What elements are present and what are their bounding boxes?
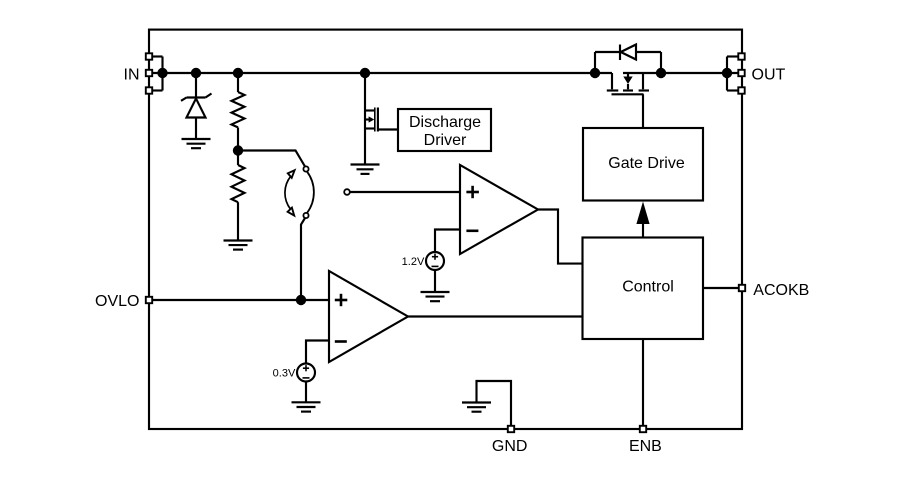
arrow: Control to Gate Drive <box>636 202 649 238</box>
IC outline <box>149 30 742 429</box>
svg-text:Gate Drive: Gate Drive <box>608 155 685 172</box>
pin GND <box>492 426 528 455</box>
wire: U2 - input to V2 <box>306 341 329 364</box>
resistor R1 (upper divider) <box>232 68 245 151</box>
svg-text:Discharge: Discharge <box>409 114 481 131</box>
wire: open terminal to U1 + input <box>350 191 460 193</box>
wire: IN rail left segment <box>149 72 612 74</box>
wire: U2 output to Control <box>408 315 583 317</box>
svg-text:0.3V: 0.3V <box>273 368 296 380</box>
comparator U1 <box>460 165 538 254</box>
ground (V1) <box>421 292 450 301</box>
transistor Q2 (discharge NMOS) <box>360 68 398 164</box>
ground (R2) <box>224 241 253 250</box>
ground (GND pin bracket) <box>462 381 511 425</box>
svg-text:1.2V: 1.2V <box>402 256 425 268</box>
node: Q1 drain <box>656 68 666 78</box>
node: Q1 source <box>590 68 600 78</box>
diode D2 (Q1 body diode) <box>595 45 661 74</box>
resistor R2 (lower divider) <box>232 151 245 241</box>
node: OVLO junction <box>296 295 306 305</box>
svg-text:OUT: OUT <box>752 66 786 83</box>
switch S1 (threshold select) <box>285 166 314 218</box>
wire: U1 - input to V1 <box>435 230 460 253</box>
source V2 0.3V <box>273 364 315 403</box>
wire: U1 output to Control <box>538 210 583 264</box>
svg-text:OVLO: OVLO <box>95 293 139 310</box>
wire: OUT rail right segment <box>623 72 742 74</box>
node: OUT bracket junction <box>722 68 732 78</box>
block: Control <box>583 238 704 340</box>
pin OUT <box>727 53 786 93</box>
svg-text:GND: GND <box>492 438 528 455</box>
ground (zener) <box>182 139 211 148</box>
block: Discharge Driver <box>398 109 491 151</box>
transistor Q1 (pass FET) <box>607 73 649 128</box>
wire: OVLO rail <box>153 299 329 301</box>
terminal: U1 + input open circle <box>344 189 350 195</box>
svg-text:ENB: ENB <box>629 438 662 455</box>
svg-text:ACOKB: ACOKB <box>753 282 809 299</box>
block: Gate Drive <box>583 128 703 201</box>
wire: switch pole to OVLO rail <box>301 218 305 300</box>
comparator U2 <box>329 271 408 362</box>
node: divider tap <box>233 145 243 155</box>
pin ENB <box>629 339 662 455</box>
ground (Q2 source) <box>351 165 380 174</box>
zener diode D1 <box>181 68 212 139</box>
wire: tap to switch contact <box>238 151 305 167</box>
svg-text:IN: IN <box>124 66 140 83</box>
svg-text:Control: Control <box>622 279 674 296</box>
pin ACOKB <box>703 282 809 299</box>
node: IN bracket junction <box>157 68 167 78</box>
ground (V2) <box>292 402 321 411</box>
pin OVLO <box>95 293 152 310</box>
svg-text:Driver: Driver <box>424 132 467 149</box>
source V1 1.2V <box>402 252 444 292</box>
pin IN <box>124 53 163 93</box>
